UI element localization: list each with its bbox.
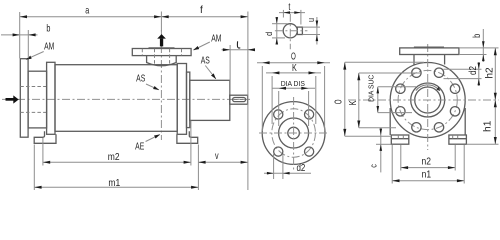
suction flange plate — [20, 59, 28, 138]
svg-text:a: a — [85, 4, 89, 15]
svg-text:m2: m2 — [108, 151, 120, 162]
dimension n2 — [401, 167, 455, 169]
svg-text:K: K — [347, 100, 358, 105]
dimension K (right view) — [358, 73, 360, 128]
svg-text:n1: n1 — [422, 169, 431, 180]
bolt hole hidden lines — [20, 86, 46, 88]
dimension b — [1, 34, 38, 36]
dimension a — [20, 16, 162, 18]
svg-text:K: K — [292, 62, 297, 73]
crosshair — [259, 132, 329, 134]
svg-text:DIA SUC: DIA SUC — [367, 75, 375, 102]
bolt circle — [398, 70, 457, 129]
suction bore circle — [415, 87, 441, 113]
dimension u — [316, 17, 318, 45]
inner ring circle — [411, 83, 445, 117]
bore circle — [288, 127, 300, 139]
dimension t — [279, 12, 305, 14]
discharge flange neck/bell — [147, 56, 177, 66]
flow arrow discharge (up) — [157, 34, 166, 46]
svg-text:DIA DIS: DIA DIS — [281, 80, 305, 88]
svg-text:AM: AM — [44, 40, 54, 52]
svg-text:t: t — [288, 1, 290, 12]
left end ring — [47, 62, 55, 134]
outer circle — [390, 63, 465, 138]
suction flange hub — [28, 71, 46, 128]
svg-text:AE: AE — [135, 140, 144, 152]
right foot — [177, 131, 198, 143]
dimension DIA SUC — [377, 87, 379, 113]
dimension d2 (hole dia) — [264, 172, 311, 174]
discharge bore hidden lines — [154, 49, 156, 65]
bolt circle — [272, 109, 316, 157]
dimension K — [266, 72, 321, 74]
svg-text:c: c — [367, 164, 378, 168]
outer circle — [262, 102, 325, 165]
dimension v — [198, 161, 248, 163]
dimension m2 — [43, 161, 191, 163]
top mounting plate — [400, 48, 459, 55]
dimension c — [380, 128, 382, 172]
svg-text:b: b — [471, 34, 482, 38]
svg-text:n2: n2 — [421, 156, 430, 167]
vertical centerline of discharge flange — [160, 30, 162, 140]
bottom side walls — [389, 108, 391, 135]
dimension b (right view) — [482, 29, 484, 62]
svg-text:AS: AS — [136, 72, 145, 84]
svg-text:u: u — [305, 18, 316, 22]
neck sides — [413, 55, 415, 65]
svg-text:d2: d2 — [467, 66, 478, 75]
discharge flange lip — [149, 47, 175, 49]
svg-text:AM: AM — [211, 32, 221, 44]
dimension h2 — [494, 48, 496, 144]
shaft — [230, 95, 248, 104]
dimension DIA DIS — [272, 87, 315, 89]
step ring — [187, 72, 190, 128]
svg-text:d: d — [263, 32, 274, 36]
key — [297, 27, 302, 34]
crosshair — [275, 30, 308, 32]
discharge flange plate — [132, 49, 191, 56]
dimension m1 — [34, 186, 198, 188]
svg-text:O: O — [291, 50, 296, 62]
svg-text:v: v — [215, 150, 219, 161]
svg-text:m1: m1 — [108, 177, 120, 188]
dimension f — [161, 16, 248, 18]
hub circle — [279, 118, 309, 148]
horizontal centerline — [2, 98, 253, 100]
svg-text:AS: AS — [201, 54, 210, 66]
crosshair — [348, 99, 499, 101]
motor body cylinder — [55, 65, 177, 132]
left foot — [34, 131, 56, 143]
svg-text:h1: h1 — [483, 120, 494, 132]
bolt holes — [274, 110, 283, 119]
shaft circle — [283, 24, 297, 38]
rotation arrow — [416, 85, 438, 91]
flow arrow inlet — [6, 95, 19, 103]
svg-text:O: O — [332, 99, 344, 104]
dimension d2 (right view) — [478, 62, 480, 86]
dimension O — [257, 62, 330, 64]
dimension O (right view) — [344, 62, 346, 136]
left foot pad — [391, 135, 409, 144]
8 bolt holes — [412, 68, 421, 77]
right foot pad — [449, 135, 467, 144]
dimension l — [222, 49, 255, 51]
extension lines left view — [19, 12, 21, 58]
bearing housing — [190, 80, 230, 120]
dimension h1 — [494, 100, 497, 107]
svg-text:f: f — [200, 5, 203, 16]
shaft key slot — [233, 98, 246, 102]
dimension d — [276, 17, 278, 45]
dimension n1 — [392, 180, 464, 182]
plate lip — [414, 46, 444, 48]
right end ring — [177, 64, 186, 135]
svg-text:b: b — [46, 22, 50, 33]
svg-text:h2: h2 — [485, 67, 496, 79]
svg-text:d2: d2 — [296, 162, 305, 173]
